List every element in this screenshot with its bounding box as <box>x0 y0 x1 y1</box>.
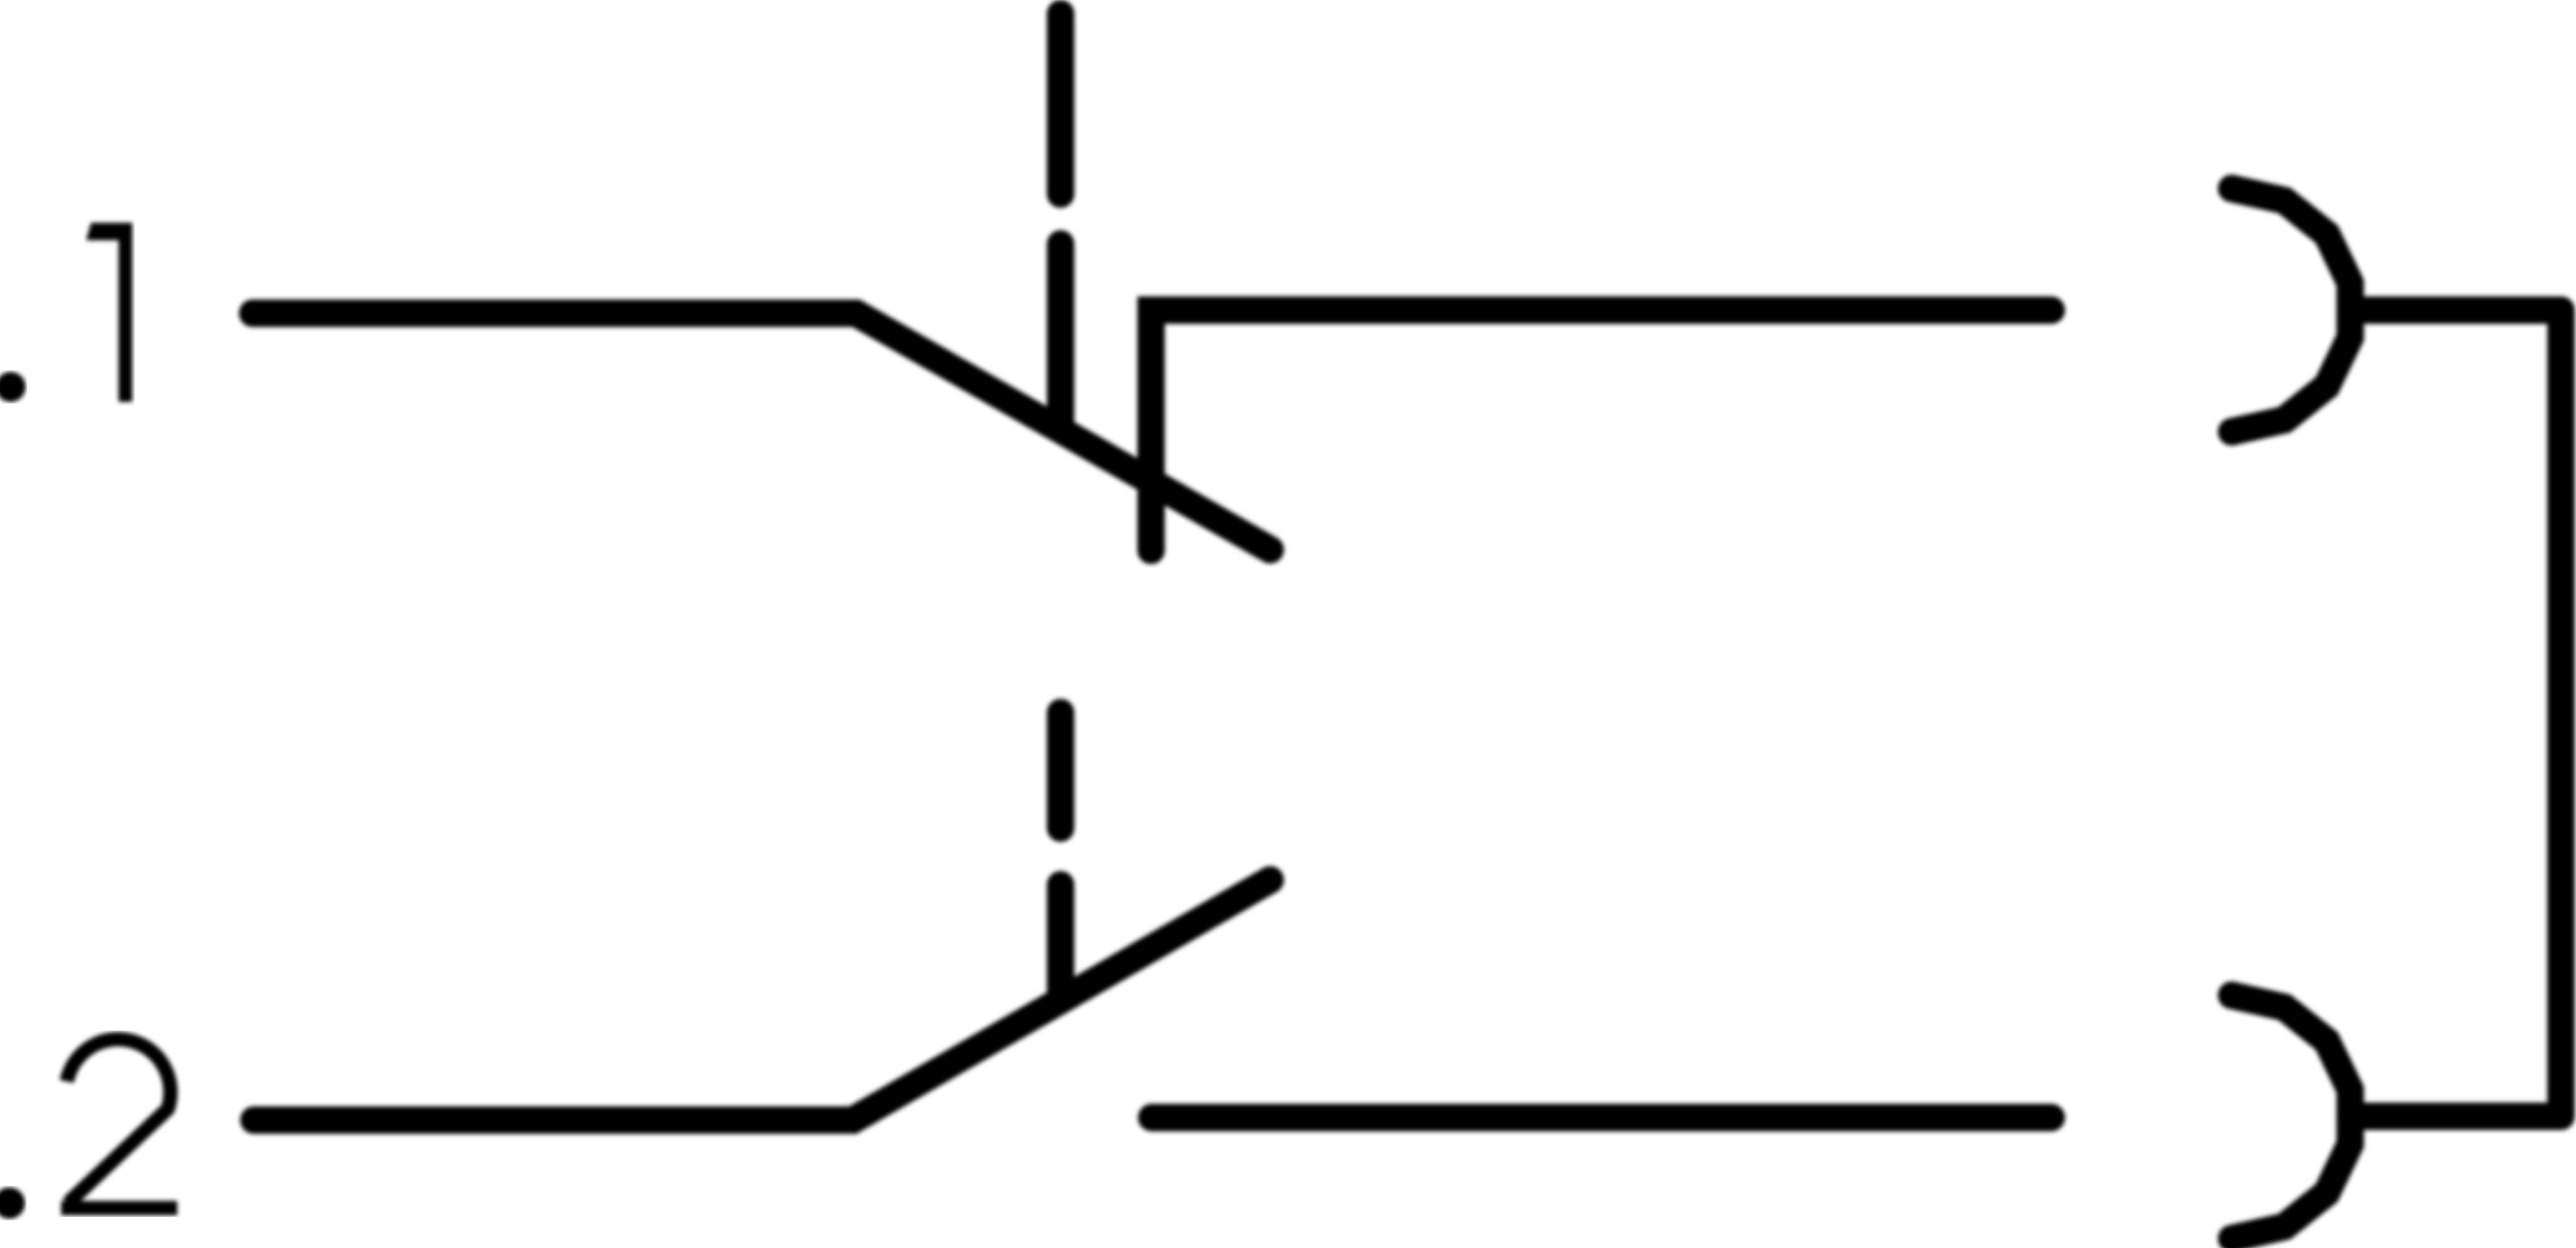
actuator link (dashed) above NO contact <box>1047 713 1074 995</box>
common pole bus wire (right) <box>2350 310 2561 1116</box>
cropped label dot (top, clipped at left edge) <box>0 372 26 402</box>
actuator link (dashed) above NC contact <box>1047 14 1074 424</box>
terminal label 1 <box>86 223 132 402</box>
terminal label 2 <box>61 1039 177 1208</box>
wire: NO fixed contact lead to plug <box>1152 1104 2051 1131</box>
wire: terminal 1 lead + NC moving contact arm <box>253 313 1270 550</box>
plug-in socket contact (top) <box>2232 188 2350 432</box>
NC fixed contact angle bracket + wire to plug (node 1 right) <box>1151 310 2051 550</box>
cropped label dot (bottom, clipped at left edge) <box>0 1187 25 1219</box>
wire: terminal 2 lead + NO moving contact arm <box>254 880 1270 1120</box>
plug-in socket contact (bottom) <box>2232 995 2350 1239</box>
